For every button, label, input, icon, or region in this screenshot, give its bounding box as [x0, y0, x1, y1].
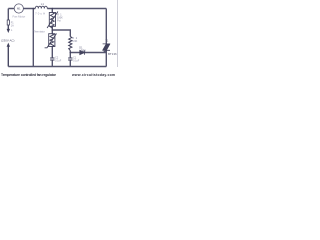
svg-text:3.3K: 3.3K	[72, 40, 77, 43]
svg-text:Thermistor: Thermistor	[33, 30, 45, 34]
thermistor TH1	[45, 34, 57, 48]
right border line	[117, 0, 119, 67]
fan motor M1	[14, 4, 23, 13]
svg-text:L1: L1	[41, 2, 45, 6]
svg-text:www.circuitstoday.com: www.circuitstoday.com	[71, 73, 115, 77]
AC terminal arrow upper	[7, 27, 9, 33]
wire top rail	[8, 8, 106, 10]
AC terminal arrow lower	[7, 44, 9, 67]
wire cap C2 to rail	[51, 61, 53, 67]
svg-text:BT136: BT136	[108, 52, 117, 56]
wire column x52 upper	[51, 9, 53, 13]
diac D1	[80, 50, 85, 55]
capacitor C2	[50, 58, 54, 60]
svg-text:M1: M1	[17, 7, 21, 11]
svg-text:L: L	[11, 29, 13, 32]
svg-text:Temperature controlled fan reg: Temperature controlled fan regulator	[1, 73, 57, 77]
wire left lower	[7, 46, 9, 67]
triac T1	[103, 44, 110, 50]
svg-text:Fan Motor: Fan Motor	[13, 15, 26, 19]
wire pot to cap C2	[51, 47, 53, 58]
svg-text:Pot: Pot	[57, 19, 61, 22]
wire right column	[105, 9, 107, 67]
svg-text:T1: T1	[105, 38, 109, 42]
wire cap C1 to rail	[69, 61, 71, 67]
wire junction to R2 branch	[52, 30, 70, 37]
fuse F1	[7, 20, 9, 25]
wire thermistor to junction	[51, 27, 53, 34]
resistor R2	[69, 37, 72, 51]
wire bottom rail	[8, 66, 106, 68]
wire left upper	[7, 9, 9, 31]
node A junction x33	[33, 8, 35, 10]
node C junction x52 y29.5	[52, 29, 54, 31]
svg-text:0.1uF: 0.1uF	[55, 59, 62, 62]
wire gate line	[70, 51, 106, 53]
svg-text:DB3: DB3	[81, 50, 86, 53]
svg-text:1A: 1A	[11, 24, 14, 27]
wire column x33	[32, 9, 34, 67]
wire R2 to node	[69, 51, 71, 58]
inductor L1	[35, 6, 47, 8]
svg-text:70uH: 70uH	[35, 11, 45, 15]
resistor R1 preset	[47, 12, 58, 29]
capacitor C1	[68, 58, 72, 60]
node B junction x52	[52, 8, 54, 10]
node D junction x70 y52	[70, 52, 72, 54]
svg-text:0.1uF: 0.1uF	[73, 59, 80, 62]
svg-text:(230V AC): (230V AC)	[1, 39, 14, 43]
